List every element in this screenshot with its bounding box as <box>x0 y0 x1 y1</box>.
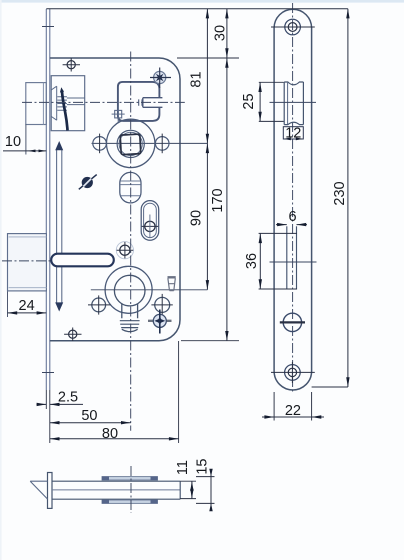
side view case right end <box>179 481 181 499</box>
dim 15 extension stubs <box>196 477 215 504</box>
follower ring inner <box>119 132 142 155</box>
latch shaft lines <box>67 98 85 105</box>
small screw top-left in case <box>67 61 75 69</box>
spring clip rounded outline (top center) <box>118 82 159 121</box>
bottom screw axis tick <box>271 371 315 373</box>
latch window inner lip line <box>287 83 289 124</box>
svg-text:12: 12 <box>285 125 301 141</box>
side view case mid line <box>52 489 180 491</box>
follower left ear hole <box>93 137 107 151</box>
faceplate plate outline (stadium) <box>274 9 312 390</box>
pin fitting vertical tick <box>117 106 119 123</box>
deadbolt inner edge lines <box>9 237 47 288</box>
svg-text:170: 170 <box>210 188 226 212</box>
cylinder keyway sides <box>122 304 138 319</box>
bolt slot 36 extension lines <box>259 233 297 289</box>
dim 10 line <box>3 150 46 152</box>
arrows on outer dim line <box>225 9 228 19</box>
keyway base lines <box>120 321 140 328</box>
dim 230 bottom connector <box>312 386 348 388</box>
dim 230 vertical line <box>347 9 349 387</box>
middle screw slotted <box>283 313 301 331</box>
follower boss outer circle <box>107 119 155 167</box>
side view case top line <box>52 480 180 482</box>
deadbolt left edge extension for dim 24 <box>7 292 9 318</box>
bottom screw hole inner <box>288 368 296 376</box>
dim 2.5 line <box>37 403 84 405</box>
dim 22 line <box>262 416 324 418</box>
guide capsule below follower <box>120 172 141 203</box>
wedge block near case edge <box>168 276 176 278</box>
cylinder left ear hole <box>92 298 106 312</box>
cylinder outer circle <box>105 266 152 313</box>
slot screw vertical tick <box>149 215 151 238</box>
dim 22 extension lines <box>274 392 312 421</box>
svg-text:80: 80 <box>102 426 118 442</box>
faceplate lines extension below plate <box>46 390 50 409</box>
dim 6 line segments <box>276 224 307 226</box>
dim 24 line <box>8 312 47 314</box>
latch bevel edge <box>51 86 57 120</box>
case top extension line <box>177 57 239 59</box>
diagonal-slot screw (dark) mid-left <box>79 175 97 190</box>
dim 80 line <box>50 438 179 440</box>
dim 11 extension lines <box>180 481 196 498</box>
svg-text:50: 50 <box>81 408 97 424</box>
svg-text:90: 90 <box>189 210 205 226</box>
deadbolt head rectangle <box>8 234 47 291</box>
phillips screw top-right (dark) <box>154 71 166 83</box>
latch spring coil lines <box>57 97 67 110</box>
bolt axis tick on plate <box>270 261 317 263</box>
dim 36 line <box>259 233 261 289</box>
side view faceplate bar <box>48 473 53 509</box>
capsule chord lines <box>120 181 140 196</box>
latch axis centerline <box>22 101 185 103</box>
cylinder axis extension line <box>91 289 208 291</box>
top screw hole outer <box>285 19 301 35</box>
latch spring bold curved wire <box>62 91 68 131</box>
faceplate front line (outer) <box>45 9 47 390</box>
side view top cover strip <box>102 477 158 480</box>
pin fitting horizontal tick <box>112 113 125 115</box>
svg-text:230: 230 <box>332 181 348 205</box>
dim 50 line <box>50 422 131 424</box>
lever bar bottom arrowhead <box>55 302 63 311</box>
slot screw horizontal tick <box>142 225 159 227</box>
side view case bottom line <box>52 498 180 500</box>
svg-text:10: 10 <box>5 134 21 150</box>
svg-text:11: 11 <box>175 460 191 475</box>
top screw hole inner <box>288 23 297 32</box>
latch window right edge <box>302 82 304 125</box>
phillips screw bottom-right (dark) <box>148 320 172 322</box>
small screw bottom-left in case <box>69 330 77 338</box>
faceplate tick at bottom screw axis <box>42 372 54 374</box>
follower ring outer <box>117 130 144 157</box>
lever bar top arrowhead <box>55 141 63 150</box>
left extension line for 50/80 <box>49 409 51 443</box>
dim 12 arrows <box>283 138 291 141</box>
svg-text:25: 25 <box>241 93 257 109</box>
scan tint strip left <box>0 0 2 560</box>
cylinder profile circle <box>114 275 145 306</box>
follower right ear hole <box>155 137 169 151</box>
latch window left edge <box>283 82 285 125</box>
lever bar shaft lines <box>56 150 58 303</box>
top screw axis tick <box>271 26 315 28</box>
case right edge extension line for 80 <box>178 341 180 443</box>
bolt slot left edge <box>286 226 288 289</box>
svg-text:2.5: 2.5 <box>58 389 78 405</box>
case bottom extension line <box>181 340 239 342</box>
dim 25 extension lines <box>259 82 284 121</box>
faceplate back line (inner) <box>49 9 51 390</box>
svg-text:22: 22 <box>285 403 301 419</box>
svg-text:15: 15 <box>195 459 211 475</box>
side view cover strip dark ends <box>102 476 109 480</box>
latch bolt nose (protrudes left of faceplate) <box>26 83 47 125</box>
dim 15 line <box>210 470 212 510</box>
follower axis extension line <box>92 142 208 144</box>
latch nose extension line down to dim 10 <box>25 125 27 155</box>
faceplate centerline <box>292 3 294 394</box>
side view latch bevel triangle <box>30 481 47 499</box>
bolt slot right edge <box>296 226 298 289</box>
svg-text:24: 24 <box>19 298 35 314</box>
adjusting slot inner stadium <box>144 203 157 237</box>
latch body rectangle inside case <box>51 76 84 131</box>
cylinder right ear hole <box>155 297 170 312</box>
keyway bottom arc <box>122 329 138 331</box>
small pin fitting left of clip <box>115 110 122 118</box>
svg-text:30: 30 <box>213 25 229 41</box>
follower square spindle hole <box>120 134 141 155</box>
latch window top edge with notch <box>284 82 303 85</box>
small crosshair hole mid-left <box>120 245 130 255</box>
svg-text:81: 81 <box>189 71 205 87</box>
deadbolt tail bar stadium <box>51 254 114 267</box>
clip hook notch lines <box>143 98 163 108</box>
lock case outline <box>50 58 180 341</box>
clip hook inner ticks <box>139 99 142 105</box>
side view centerline <box>130 466 132 513</box>
bottom screw hole outer <box>285 365 301 381</box>
inner vertical dim line (81/90) <box>206 9 208 290</box>
faceplate tick at top screw axis <box>42 26 54 28</box>
outer vertical dim line (30/170) <box>226 9 228 341</box>
arrows on inner dim line <box>206 9 209 19</box>
dim 12 box <box>283 127 303 139</box>
latch axis tick on plate <box>270 101 317 103</box>
slot screw circle <box>145 221 155 231</box>
svg-text:36: 36 <box>244 253 260 269</box>
scan tint strip top <box>0 0 404 3</box>
dim 11 line <box>191 481 193 498</box>
svg-text:6: 6 <box>289 209 297 225</box>
deadbolt axis centerline <box>2 260 116 262</box>
side view bottom cover strip <box>102 500 158 503</box>
adjusting slot outer stadium <box>141 201 159 241</box>
dim 25 line <box>259 82 261 121</box>
latch window bottom edge with notch <box>284 122 303 124</box>
main vertical centerline through follower and cylinder <box>130 52 132 431</box>
top connector line y=8.7 <box>46 8 348 10</box>
